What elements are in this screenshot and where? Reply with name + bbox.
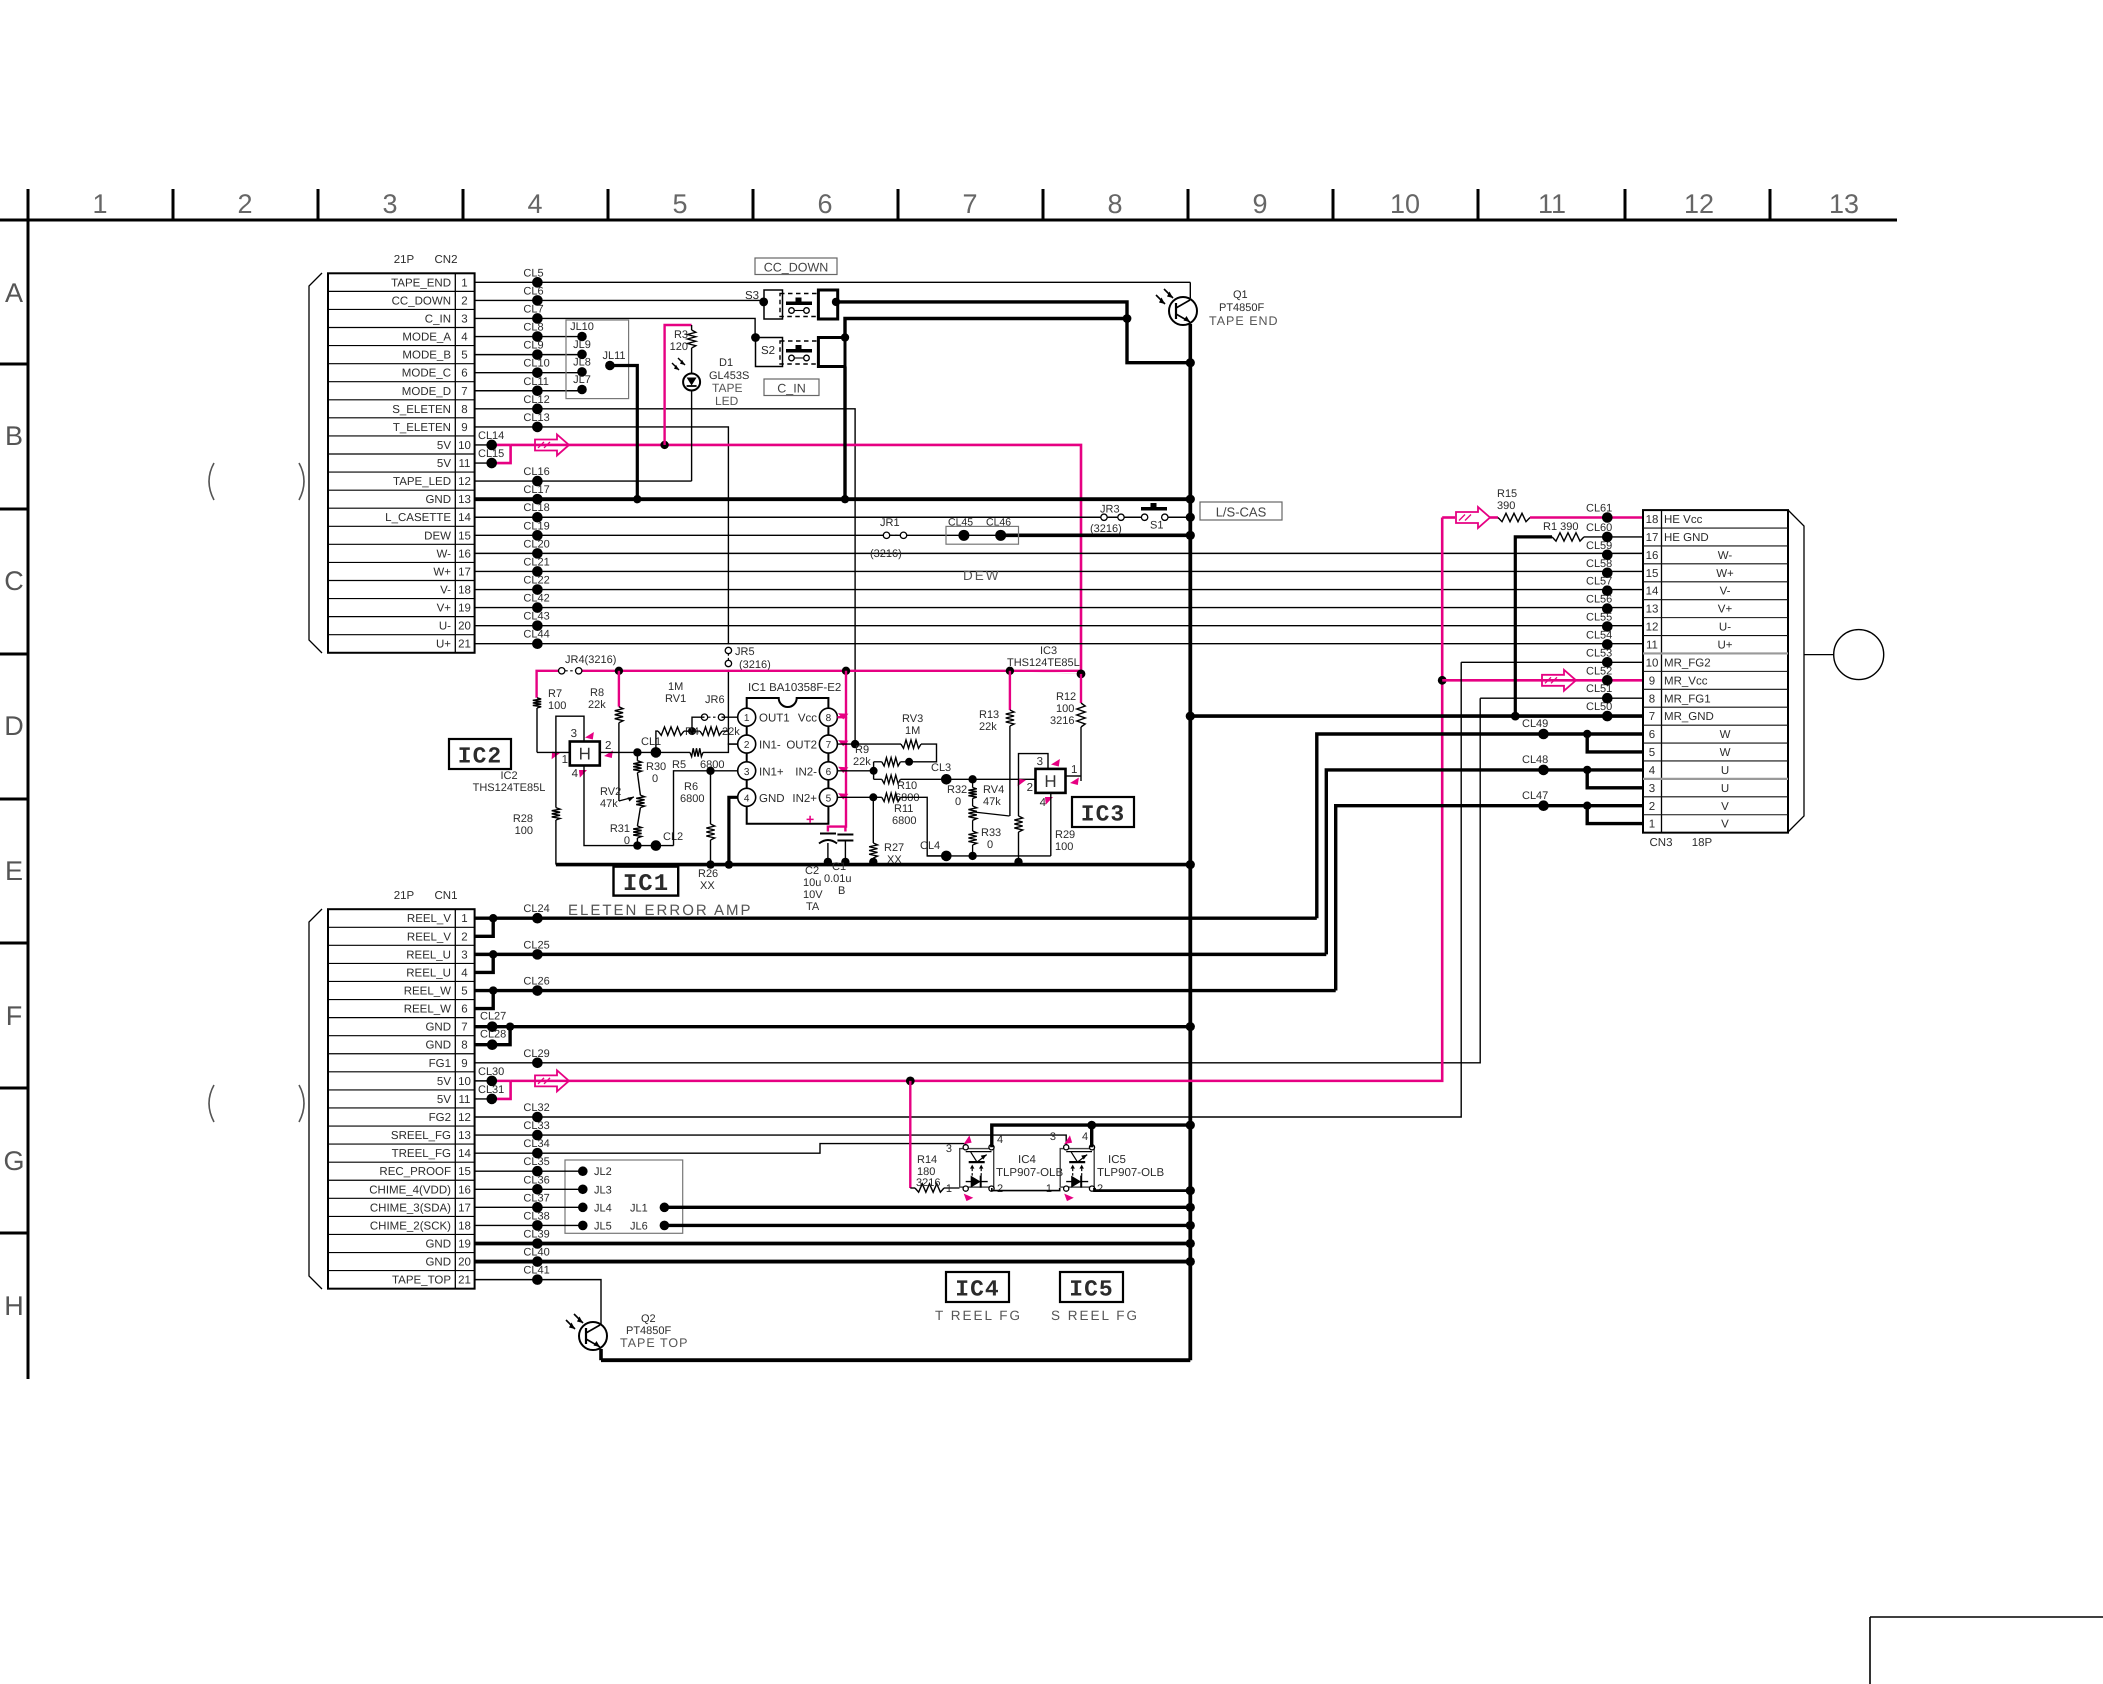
svg-text:IN1+: IN1+: [759, 766, 784, 778]
5V branch to R14 (magenta): [909, 1081, 911, 1188]
svg-text:JL2: JL2: [594, 1166, 612, 1178]
svg-text:3: 3: [461, 313, 467, 325]
svg-text:18: 18: [458, 1220, 471, 1232]
svg-text:R4: R4: [685, 726, 699, 738]
jumper land JL3: [578, 1184, 588, 1194]
svg-text:CL48: CL48: [1522, 754, 1548, 766]
svg-text:22k: 22k: [722, 726, 740, 738]
svg-text:R3: R3: [674, 329, 688, 341]
svg-text:CL11: CL11: [523, 376, 548, 388]
ferrite bead CL4: [941, 851, 952, 862]
wire IC2 pin2 line: [600, 751, 690, 753]
svg-text:CL41: CL41: [523, 1265, 549, 1277]
svg-text:MODE_C: MODE_C: [402, 368, 451, 380]
resistor R13 22k: [1009, 671, 1011, 710]
svg-text:IC2: IC2: [500, 770, 517, 782]
ferrite bead CL20: [532, 548, 543, 559]
net label L/S-CAS: [1200, 502, 1282, 520]
net label CC_DOWN: [755, 258, 837, 275]
Vcc wire pin8 (magenta): [837, 671, 846, 717]
svg-text:9: 9: [461, 1058, 467, 1070]
svg-text:L_CASETTE: L_CASETTE: [385, 512, 451, 524]
GND pins 19/20 to bus (thick): [475, 1242, 1191, 1246]
svg-text:C_IN: C_IN: [425, 313, 451, 325]
svg-text:12: 12: [1646, 622, 1659, 634]
svg-text:JL4: JL4: [594, 1202, 612, 1214]
junction R8: [615, 667, 623, 675]
wire IC1 pin6 node: [837, 770, 873, 772]
svg-text:CL39: CL39: [523, 1228, 549, 1240]
jumper land JL5: [578, 1221, 588, 1231]
svg-text:GND: GND: [759, 793, 785, 805]
ferrite bead CL30: [487, 1076, 498, 1087]
svg-text:IC3: IC3: [1040, 645, 1057, 657]
svg-text:100: 100: [1055, 841, 1073, 853]
ferrite bead CL58: [1602, 568, 1613, 579]
svg-text:MR_Vcc: MR_Vcc: [1664, 675, 1708, 687]
svg-text:CL57: CL57: [1586, 576, 1612, 588]
5V wires CN1 pins10/11 (magenta): [475, 1080, 492, 1082]
parenthesis marks CN1: [209, 1085, 214, 1122]
svg-text:8: 8: [461, 404, 467, 416]
ferrite bead CL53: [1602, 657, 1613, 668]
svg-text:R6: R6: [684, 781, 698, 793]
svg-text:15: 15: [1646, 568, 1659, 580]
wire CL2 line / IC2 pin4: [584, 766, 674, 846]
junction JL11-GND: [633, 495, 641, 503]
svg-text:CL26: CL26: [523, 976, 549, 988]
svg-text:22k: 22k: [853, 756, 871, 768]
IC1 pin 4 GND: [738, 788, 756, 806]
svg-text:CL53: CL53: [1586, 647, 1612, 659]
svg-text:CN3: CN3: [1649, 837, 1672, 849]
ferrite bead CL47: [1538, 800, 1549, 811]
LED D1 GL453S TAPE LED: [691, 348, 693, 374]
svg-text:18: 18: [1646, 514, 1659, 526]
svg-text:CL40: CL40: [523, 1247, 549, 1259]
svg-text:SREEL_FG: SREEL_FG: [391, 1130, 451, 1142]
svg-text:JR5: JR5: [735, 646, 755, 658]
svg-text:CC_DOWN: CC_DOWN: [392, 295, 451, 307]
resistor R27 XX: [872, 797, 874, 843]
resistor R29 100: [1014, 816, 1022, 832]
main GND bus vertical: [1188, 363, 1192, 1360]
junction R32: [968, 775, 976, 783]
title block corner: [1870, 1616, 2103, 1618]
wires REEL_U pins3/4: [475, 953, 1327, 956]
wire TREEL_FG to IC4 pin3: [475, 1144, 966, 1154]
svg-text:R26: R26: [698, 868, 718, 880]
svg-text:5: 5: [826, 793, 832, 804]
ferrite bead CL13: [532, 422, 543, 433]
ferrite bead CL2: [651, 840, 662, 851]
trimmer RV4 47k: [968, 806, 976, 820]
svg-text:CL21: CL21: [523, 556, 549, 568]
svg-text:1: 1: [562, 754, 568, 766]
svg-text:8: 8: [826, 713, 832, 724]
wire MR_GND (thick): [1190, 714, 1643, 718]
wire JL11 to GND: [610, 366, 637, 500]
svg-text:S1: S1: [1150, 520, 1163, 532]
trimmer RV2 47k: [637, 773, 640, 796]
svg-text:CL56: CL56: [1586, 594, 1612, 606]
resistor R3 120: [691, 325, 693, 330]
svg-text:H: H: [4, 1291, 24, 1321]
svg-text:TREEL_FG: TREEL_FG: [392, 1148, 451, 1160]
ferrite bead CL22: [532, 584, 543, 595]
wires W-,W+,V-,V+,U-,U+ pins16-21 to CN3: [475, 552, 1643, 554]
junction GND-bus: [1186, 495, 1195, 504]
svg-text:R1 390: R1 390: [1543, 521, 1578, 533]
junction L_CASETTE-bus: [1186, 513, 1195, 522]
CN2 bracket: [309, 273, 322, 653]
ferrite bead CL60: [1602, 532, 1613, 543]
svg-text:R28: R28: [513, 813, 533, 825]
ferrite bead CL39: [532, 1238, 543, 1249]
svg-text:CL42: CL42: [523, 593, 549, 605]
svg-text:REEL_W: REEL_W: [404, 986, 451, 998]
wire W pair (REEL_V) to CN3 pins6/5: [1317, 734, 1643, 918]
ferrite bead CL10: [532, 367, 543, 378]
svg-text:8: 8: [1107, 189, 1122, 219]
wire IC1 pin4 to GND rail: [729, 797, 738, 862]
svg-text:CL27: CL27: [480, 1011, 506, 1023]
jumper JR5 (3216): [725, 647, 731, 653]
svg-text:10: 10: [1646, 657, 1659, 669]
motor connection circle: [1804, 654, 1834, 656]
ferrite bead CL35: [532, 1166, 543, 1177]
junction R29-rail: [1014, 858, 1022, 866]
svg-text:CL29: CL29: [523, 1048, 549, 1060]
junction R12: [1077, 670, 1086, 679]
svg-text:JL3: JL3: [594, 1184, 612, 1196]
svg-text:JL9: JL9: [573, 339, 591, 351]
svg-text:9: 9: [1252, 189, 1267, 219]
svg-text:CL55: CL55: [1586, 612, 1612, 624]
svg-text:14: 14: [1646, 586, 1659, 598]
svg-text:CL51: CL51: [1586, 683, 1612, 695]
ferrite bead CL7: [532, 313, 543, 324]
svg-text:13: 13: [458, 1130, 471, 1142]
boxed label IC3: [1072, 797, 1134, 827]
svg-text:REEL_W: REEL_W: [404, 1004, 451, 1016]
wire DEW pin15 via JR1,CL45,CL46 to bus: [475, 534, 1001, 536]
ferrite bead CL43: [532, 620, 543, 631]
svg-text:R7: R7: [548, 688, 562, 700]
ferrite bead CL5: [532, 277, 543, 288]
wires REEL_W pins5/6: [475, 989, 1336, 992]
svg-text:15: 15: [458, 530, 471, 542]
svg-text:3: 3: [744, 767, 750, 778]
wire FG1 to MR_FG1: [475, 698, 1481, 1063]
svg-text:8: 8: [461, 1040, 467, 1052]
ferrite bead CL19: [532, 530, 543, 541]
svg-text:0.01u: 0.01u: [824, 873, 852, 885]
switch S2: [756, 338, 783, 367]
wire IC5 pin2 to bus: [1095, 1188, 1191, 1191]
jumper land JL6: [660, 1221, 670, 1231]
CL4 line: [927, 855, 1051, 857]
ferrite bead CL25: [532, 949, 543, 960]
svg-text:REEL_V: REEL_V: [407, 913, 451, 925]
svg-text:CL14: CL14: [478, 430, 504, 442]
svg-text:REEL_V: REEL_V: [407, 931, 451, 943]
svg-text:B: B: [5, 421, 23, 451]
svg-text:7: 7: [962, 189, 977, 219]
svg-text:4: 4: [1082, 1131, 1088, 1143]
ferrite bead CL16: [532, 476, 543, 487]
ferrite bead CL11: [532, 385, 543, 396]
wire JL4: [475, 1206, 583, 1208]
svg-text:12: 12: [458, 1112, 471, 1124]
5V sub-net JR4 line (magenta): [537, 671, 562, 698]
junction S_ELETEN-OUT2: [851, 740, 859, 748]
svg-text:6: 6: [817, 189, 832, 219]
svg-text:XX: XX: [887, 854, 902, 866]
svg-text:9: 9: [1649, 675, 1655, 687]
svg-text:D1: D1: [719, 357, 733, 369]
svg-text:1: 1: [946, 1183, 952, 1195]
svg-text:CL52: CL52: [1586, 665, 1612, 677]
svg-text:CL20: CL20: [523, 538, 549, 550]
svg-text:C2: C2: [805, 865, 819, 877]
jumper-land box JL7..JL11: [566, 320, 629, 399]
svg-text:(3216): (3216): [870, 548, 902, 560]
svg-text:HE GND: HE GND: [1664, 532, 1709, 544]
junction at Q1 emitter bus: [1186, 358, 1195, 367]
junction R6: [706, 767, 714, 775]
svg-text:CL34: CL34: [523, 1138, 549, 1150]
svg-text:RV4: RV4: [983, 784, 1004, 796]
svg-text:LED: LED: [715, 394, 739, 408]
svg-text:U: U: [1721, 783, 1729, 795]
CN3 bracket: [1788, 510, 1804, 832]
hall sensor IC2 (H): [570, 742, 600, 766]
svg-text:V+: V+: [1718, 604, 1733, 616]
top ruler: [0, 219, 1897, 222]
svg-text:R5: R5: [672, 759, 686, 771]
svg-text:15: 15: [458, 1166, 471, 1178]
jumper land JL10: [577, 332, 587, 342]
svg-text:Q2: Q2: [641, 1313, 656, 1325]
jumper land box JL2..JL6: [565, 1160, 683, 1233]
svg-text:6800: 6800: [892, 815, 916, 827]
svg-text:13: 13: [458, 494, 471, 506]
5V branch to R3 (magenta): [665, 325, 692, 445]
jumper land JL7: [577, 385, 587, 395]
wire IC2 pin3 loop: [556, 716, 584, 752]
svg-text:CL35: CL35: [523, 1156, 549, 1168]
svg-text:JL5: JL5: [594, 1220, 612, 1232]
wire IC3 pin4: [1050, 793, 1052, 856]
svg-text:CL32: CL32: [523, 1102, 549, 1114]
svg-text:JL1: JL1: [630, 1202, 648, 1214]
wire JL3: [475, 1188, 583, 1190]
svg-text:REC_PROOF: REC_PROOF: [379, 1166, 451, 1178]
svg-text:U: U: [1721, 765, 1729, 777]
5V net CN2 (magenta): [511, 445, 1081, 674]
ferrite bead CL17: [532, 494, 543, 505]
svg-text:TAPE: TAPE: [712, 381, 742, 395]
svg-text:IN2-: IN2-: [795, 766, 817, 778]
svg-text:3: 3: [1050, 1131, 1056, 1143]
svg-text:RV1: RV1: [665, 693, 686, 705]
wire C_IN pin3 to S2: [475, 318, 755, 337]
wire JR6 left to RV1/R4 node: [692, 717, 705, 731]
svg-text:CL47: CL47: [1522, 790, 1548, 802]
resistor R30 0: [636, 752, 638, 760]
svg-text:14: 14: [458, 512, 471, 524]
svg-text:JL8: JL8: [573, 356, 591, 368]
svg-text:CHIME_4(VDD): CHIME_4(VDD): [369, 1184, 451, 1196]
svg-text:V-: V-: [440, 585, 451, 597]
svg-text:CL45: CL45: [948, 517, 973, 529]
ferrite bead CL29: [532, 1057, 543, 1068]
resistor R28 100: [555, 752, 557, 807]
svg-text:CL60: CL60: [1586, 522, 1612, 534]
svg-text:CL4: CL4: [920, 840, 940, 852]
wire TAPE_END pin1 to Q1 collector: [475, 281, 1191, 283]
svg-text:IC4: IC4: [1018, 1154, 1037, 1166]
svg-text:21: 21: [458, 1275, 471, 1287]
svg-text:R27: R27: [884, 842, 904, 854]
resistor R8 22k: [618, 671, 620, 707]
svg-text:W: W: [1720, 729, 1731, 741]
ferrite bead CL33: [532, 1130, 543, 1141]
IC1 pin 6 IN2-: [819, 762, 837, 780]
svg-text:JL7: JL7: [573, 374, 591, 386]
wire L_CASETTE pin14 via JR3/S1 to bus: [475, 516, 1142, 518]
svg-text:4: 4: [527, 189, 542, 219]
wire Vcc down to caps: [828, 717, 846, 831]
svg-text:CL28: CL28: [480, 1029, 506, 1041]
svg-text:(3216): (3216): [739, 659, 771, 671]
CL3 line to hall IC3 pin2: [946, 778, 1035, 780]
ferrite bead CL55: [1602, 621, 1613, 632]
svg-text:4: 4: [744, 793, 750, 804]
svg-text:W-: W-: [437, 548, 452, 560]
ferrite bead CL27: [487, 1021, 498, 1032]
svg-text:V: V: [1721, 819, 1729, 831]
svg-text:GND: GND: [425, 1257, 451, 1269]
boxed label IC1: [614, 867, 679, 896]
svg-text:4: 4: [461, 967, 468, 979]
svg-text:CL58: CL58: [1586, 558, 1612, 570]
ferrite bead CL18: [532, 512, 543, 523]
svg-text:7: 7: [826, 740, 832, 751]
svg-text:IC5: IC5: [1108, 1154, 1126, 1166]
GND rail of error amp block (thick): [556, 863, 1190, 867]
svg-text:R10: R10: [897, 780, 917, 792]
svg-text:R9: R9: [855, 744, 869, 756]
svg-text:0: 0: [652, 773, 658, 785]
jumper land JL4: [578, 1203, 588, 1213]
svg-text:1: 1: [1071, 764, 1077, 776]
op-amp IC1 BA10358F-E2 body: [747, 698, 829, 824]
ferrite bead CL9: [532, 349, 543, 360]
svg-text:CL54: CL54: [1586, 629, 1612, 641]
svg-text:3: 3: [461, 949, 467, 961]
svg-text:REEL_U: REEL_U: [406, 949, 451, 961]
svg-text:16: 16: [1646, 550, 1659, 562]
ferrite bead CL52: [1602, 675, 1613, 686]
wire Q1 emitter to bus: [1189, 324, 1193, 363]
svg-text:3: 3: [946, 1143, 952, 1155]
ferrite bead CL34: [532, 1148, 543, 1159]
ferrite bead CL45: [958, 530, 969, 541]
wire S3 right to junction: [836, 302, 1127, 319]
resistor R15 390 HE Vcc feed (magenta): [1442, 516, 1455, 519]
svg-text:JR4(3216): JR4(3216): [565, 654, 616, 666]
svg-text:1: 1: [1649, 819, 1655, 831]
svg-text:TAPE END: TAPE END: [1209, 314, 1279, 328]
svg-text:100: 100: [515, 825, 533, 837]
ferrite bead CL26: [532, 985, 543, 996]
svg-text:1: 1: [744, 713, 750, 724]
svg-text:CL8: CL8: [523, 322, 543, 334]
svg-text:14: 14: [458, 1148, 471, 1160]
svg-text:4: 4: [1040, 797, 1047, 809]
svg-text:R31: R31: [610, 823, 630, 835]
svg-text:REEL_U: REEL_U: [406, 967, 451, 979]
svg-text:CL44: CL44: [523, 629, 549, 641]
svg-text:DEW: DEW: [424, 530, 451, 542]
svg-text:R13: R13: [979, 709, 999, 721]
boxed label IC4: [946, 1272, 1009, 1302]
ferrite bead CL1: [651, 747, 662, 758]
bus bottom wire to Q2: [601, 1358, 1190, 1362]
svg-text:13: 13: [1646, 604, 1659, 616]
svg-text:FG2: FG2: [429, 1112, 451, 1124]
svg-text:RV2: RV2: [600, 786, 621, 798]
wire V pair (REEL_W) to CN3 pins2/1: [1336, 806, 1643, 991]
junction R1-MR_GND: [1511, 712, 1520, 721]
junction R31-CL2: [633, 841, 641, 849]
svg-text:IC1: IC1: [623, 871, 669, 898]
svg-text:JR6: JR6: [705, 694, 725, 706]
ferrite bead CL37: [532, 1202, 543, 1213]
svg-text:CL3: CL3: [931, 762, 951, 774]
jumper land JL2: [578, 1166, 588, 1176]
svg-text:R8: R8: [590, 687, 604, 699]
ferrite bead CL61: [1602, 512, 1613, 523]
svg-text:CL15: CL15: [478, 448, 504, 460]
ferrite bead CL44: [532, 638, 543, 649]
resistor R32 0: [972, 779, 974, 787]
svg-text:MR_FG2: MR_FG2: [1664, 657, 1711, 669]
svg-text:CL46: CL46: [986, 517, 1011, 529]
svg-text:5: 5: [672, 189, 687, 219]
svg-text:G: G: [3, 1146, 24, 1176]
svg-text:2: 2: [237, 189, 252, 219]
wire IC1 pin3 line: [711, 770, 738, 772]
svg-text:CL13: CL13: [523, 412, 549, 424]
ferrite bead CL38: [532, 1220, 543, 1231]
svg-text:1: 1: [461, 277, 467, 289]
svg-text:0: 0: [987, 839, 993, 851]
svg-text:CL38: CL38: [523, 1210, 549, 1222]
svg-text:THS124TE85L: THS124TE85L: [1007, 657, 1080, 669]
svg-text:6: 6: [826, 767, 832, 778]
svg-text:22k: 22k: [979, 721, 997, 733]
ferrite bead CL31: [487, 1094, 498, 1105]
svg-text:THS124TE85L: THS124TE85L: [473, 782, 546, 794]
svg-text:12: 12: [1684, 189, 1714, 219]
svg-text:CL37: CL37: [523, 1192, 549, 1204]
svg-text:10: 10: [458, 440, 471, 452]
svg-text:IC4: IC4: [955, 1277, 999, 1303]
phototransistor Q2 PT4850F TAPE TOP: [579, 1322, 607, 1350]
